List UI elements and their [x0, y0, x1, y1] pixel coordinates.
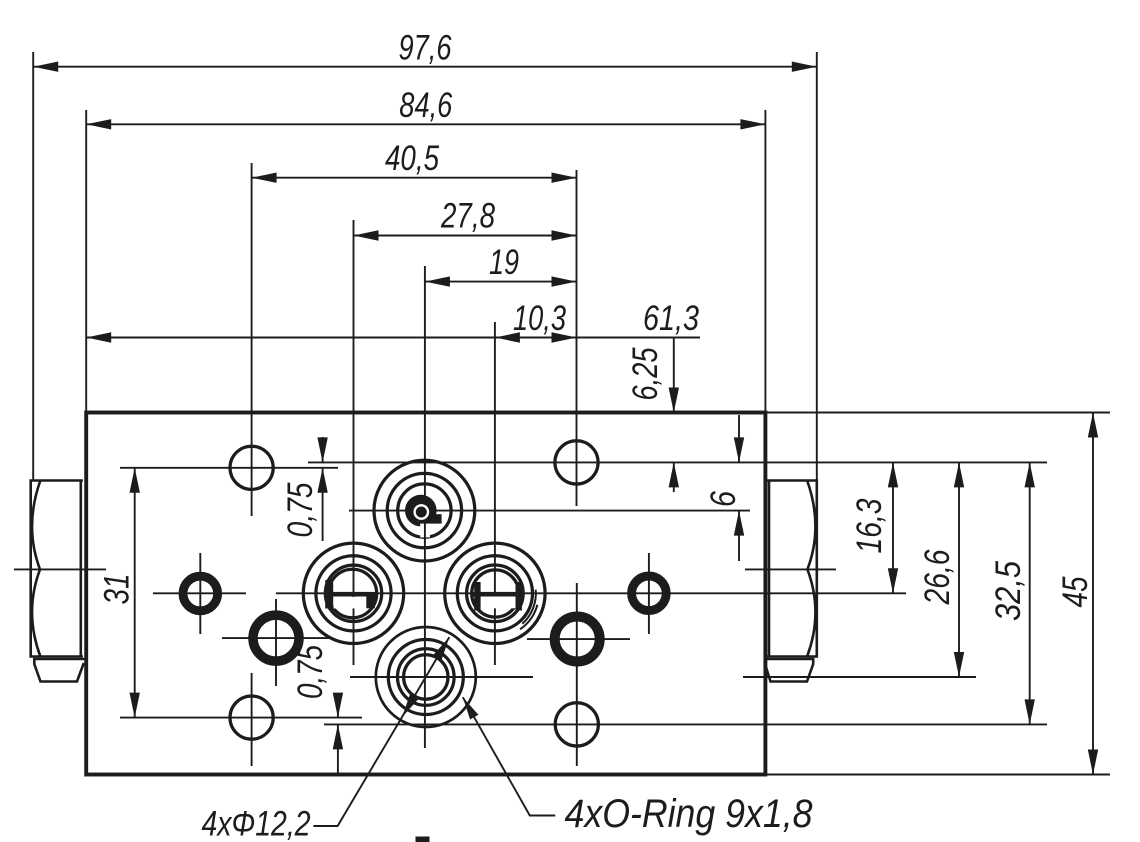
port B partial groove arc outer: [522, 590, 536, 624]
horizontal centerline ring row right: [527, 638, 630, 640]
port B spool slot band: [472, 592, 522, 597]
dimension 84,6 right arrow: [740, 119, 765, 129]
dimension 16,3 upper arrow: [888, 462, 898, 487]
dimension 19 left arrow: [425, 276, 450, 286]
port B partial groove arc inner: [520, 605, 537, 630]
dimension 6 lower arrow: [734, 511, 744, 536]
svg-text:19: 19: [489, 243, 519, 282]
extension line port T row right: [743, 676, 976, 678]
port B inner spool circle: [472, 570, 519, 617]
vertical centerline ring left: [275, 599, 277, 686]
dimension 19 line: [425, 281, 577, 283]
horizontal centerline top-left bolt row: [120, 467, 338, 469]
svg-text:31: 31: [98, 574, 137, 605]
dimension 84,6 left extension line: [85, 110, 87, 413]
dimension 0,75 bottom lower arrow: [333, 724, 343, 749]
port P hole circle: [398, 484, 451, 537]
svg-text:27,8: 27,8: [440, 197, 495, 236]
dimension 61,3 left arrow: [86, 332, 111, 342]
dimension 0,75 top upper arrow: [317, 437, 327, 462]
svg-text:40,5: 40,5: [385, 139, 439, 178]
dimension 61,3 and 10,3 shared line: [86, 337, 700, 339]
horizontal centerline bottom-left bolt row: [120, 717, 362, 719]
dimension 27,8 right arrow: [552, 230, 577, 240]
port P black tab: [430, 514, 442, 523]
dimension 10,3 left arrow: [495, 332, 520, 342]
svg-text:4xO-Ring 9x1,8: 4xO-Ring 9x1,8: [565, 792, 814, 836]
pilot port ring R4: [555, 617, 600, 662]
dimension 16,3 lower arrow: [888, 568, 898, 593]
right hex left edge line: [768, 481, 771, 657]
dimension 84,6 left arrow: [86, 119, 111, 129]
leader O-Ring arrow: [463, 697, 479, 719]
port A right spool bar: [366, 592, 375, 608]
pilot port ring R2: [253, 615, 299, 661]
dimension 0,75 top lower arrow: [317, 468, 327, 493]
leader 12,2 arrow upper: [434, 637, 450, 659]
dimension 6,25 line upper: [673, 338, 675, 413]
dimension 10,3 right arrow: [552, 332, 577, 342]
vertical centerline port B column: [494, 322, 496, 665]
dimension 27,8 line: [354, 235, 577, 237]
port T hole circle: [398, 649, 455, 706]
port P centerline over slot: [424, 522, 426, 540]
port A O-ring circle: [316, 556, 391, 631]
left hex right edge line: [80, 481, 83, 657]
dimension 0,75 top line upper: [322, 437, 324, 462]
right hex lower facet arc: [807, 569, 815, 656]
svg-text:97,6: 97,6: [399, 29, 452, 68]
left hex locknut section: [34, 659, 86, 682]
port A spool slot band: [325, 592, 375, 597]
port P spool plug black disc: [405, 495, 437, 527]
dimension 6,25 line lower: [673, 462, 675, 492]
svg-text:4xΦ12,2: 4xΦ12,2: [202, 805, 311, 842]
right hex axis centerline: [745, 568, 836, 570]
port P counterbore circle: [374, 460, 475, 561]
horizontal centerline port P row: [349, 510, 750, 512]
dimension 84,6 line: [86, 123, 765, 125]
dimension 97,6 left arrow: [33, 62, 58, 72]
vertical centerline bottom-left bolt hole: [251, 673, 253, 766]
dimension 0,75 bottom line lower: [337, 724, 339, 773]
dimension 84,6 right extension line: [764, 110, 766, 413]
port B right spool bar: [516, 582, 522, 611]
horizontal centerline top-right bolt row: [308, 461, 1047, 463]
dimension 31 lower arrow: [130, 693, 140, 718]
svg-text:10,3: 10,3: [513, 299, 566, 338]
dimension 40,5 line: [252, 177, 577, 179]
leader 12,2 arrow lower: [402, 695, 418, 717]
svg-text:32,5: 32,5: [989, 561, 1028, 621]
port A inner spool circle: [328, 569, 376, 617]
dimension 6,25 lower arrow: [669, 462, 679, 487]
horizontal centerline A-B port row left segment: [153, 592, 246, 594]
port A white spool window: [334, 597, 367, 609]
port B left spool bar: [474, 582, 480, 611]
pilot port ring R3: [632, 576, 667, 611]
dimension 45 upper arrow: [1088, 413, 1098, 438]
leader line 4x diameter 12,2: [313, 637, 449, 826]
dimension 0,75 top line lower: [322, 468, 324, 541]
vertical centerline through right bolt holes column: [576, 170, 578, 506]
horizontal centerline A-B port row main segment: [276, 592, 906, 594]
right hex locknut section: [765, 659, 814, 682]
vertical centerline through left bolt holes column: [251, 163, 253, 516]
dimension 19 right arrow: [552, 276, 577, 286]
port T counterbore circle: [376, 627, 476, 727]
left hex upper facet arc: [32, 481, 40, 569]
dimension 6 upper arrow: [734, 437, 744, 462]
dimension 45 top extension line: [765, 412, 1110, 414]
port B O-ring circle: [457, 556, 532, 631]
dimension 32,5 upper arrow: [1025, 462, 1035, 487]
bolt hole bottom-left: [230, 696, 273, 739]
right hex upper facet arc: [807, 481, 815, 569]
bolt hole top-left: [230, 446, 273, 489]
svg-text:61,3: 61,3: [643, 299, 699, 338]
vertical centerline port A column: [353, 220, 355, 665]
pilot port ring R1: [183, 576, 218, 611]
dimension 0,75 bottom upper arrow: [333, 693, 343, 718]
vertical centerline ring R3: [648, 553, 650, 634]
dimension 0,75 bottom line upper: [337, 698, 339, 718]
svg-text:6,25: 6,25: [626, 347, 665, 400]
vertical centerline ring R1: [199, 553, 201, 634]
svg-text:45: 45: [1056, 576, 1095, 607]
dimension 45 lower arrow: [1088, 750, 1098, 775]
port P white orifice ring: [415, 505, 428, 518]
dimension 16,3 line: [892, 462, 894, 593]
horizontal centerline port T row: [350, 676, 533, 678]
dimension 97,6 right arrow: [792, 62, 817, 72]
svg-text:84,6: 84,6: [399, 86, 452, 125]
port B hole circle: [467, 565, 524, 622]
port A counterbore circle: [303, 543, 403, 643]
svg-text:0,75: 0,75: [291, 645, 330, 699]
dimension 6,25 upper arrow: [669, 388, 679, 413]
svg-text:0,75: 0,75: [281, 482, 320, 537]
dimension 27,8 left arrow: [354, 230, 379, 240]
horizontal centerline ring row left: [222, 637, 330, 639]
right hex end nut outline: [767, 481, 817, 657]
leader line 4x O-Ring: [463, 697, 555, 815]
left hex end nut outline: [31, 481, 83, 657]
dimension 6 line lower: [738, 511, 740, 561]
dimension 45 line: [1092, 413, 1094, 775]
dimension 45 bottom extension line: [765, 774, 1110, 776]
left hex lower facet arc: [32, 569, 40, 656]
dimension 40,5 left arrow: [252, 173, 277, 183]
dimension 32,5 line: [1029, 462, 1031, 724]
port P white slot: [420, 524, 430, 538]
port A left spool bar: [325, 580, 333, 609]
port T O-ring circle: [388, 640, 463, 715]
bolt hole bottom-right: [555, 703, 598, 746]
dimension 26,6 line: [958, 462, 960, 677]
partial cropped mark bottom center: [416, 837, 430, 842]
valve body plate outline: [86, 413, 765, 775]
bolt hole top-right: [555, 441, 598, 484]
left hex axis centerline: [14, 568, 106, 570]
dimension 31 line: [134, 468, 136, 718]
dimension 97,6 left extension line: [32, 52, 34, 481]
svg-text:6: 6: [704, 491, 743, 507]
dimension 26,6 upper arrow: [954, 462, 964, 487]
dimension 26,6 lower arrow: [954, 652, 964, 677]
svg-text:16,3: 16,3: [850, 498, 889, 553]
port B white spool window: [481, 596, 516, 608]
vertical centerline port P and T column: [424, 266, 426, 748]
dimension 97,6 line: [33, 66, 817, 68]
port A hole circle: [325, 565, 381, 621]
dimension 40,5 right arrow: [552, 173, 577, 183]
dimension 97,6 right extension line: [816, 52, 818, 481]
port T inner circle: [404, 655, 448, 699]
port P O-ring circle: [387, 473, 461, 547]
horizontal centerline bottom-right bolt row: [324, 723, 1047, 725]
dimension 31 upper arrow: [130, 468, 140, 493]
dimension 6 line upper: [738, 415, 740, 462]
port B counterbore circle: [445, 543, 545, 643]
vertical centerline bottom-right bolt and ring: [576, 583, 578, 766]
dimension 32,5 lower arrow: [1025, 699, 1035, 724]
svg-text:26,6: 26,6: [918, 549, 957, 605]
